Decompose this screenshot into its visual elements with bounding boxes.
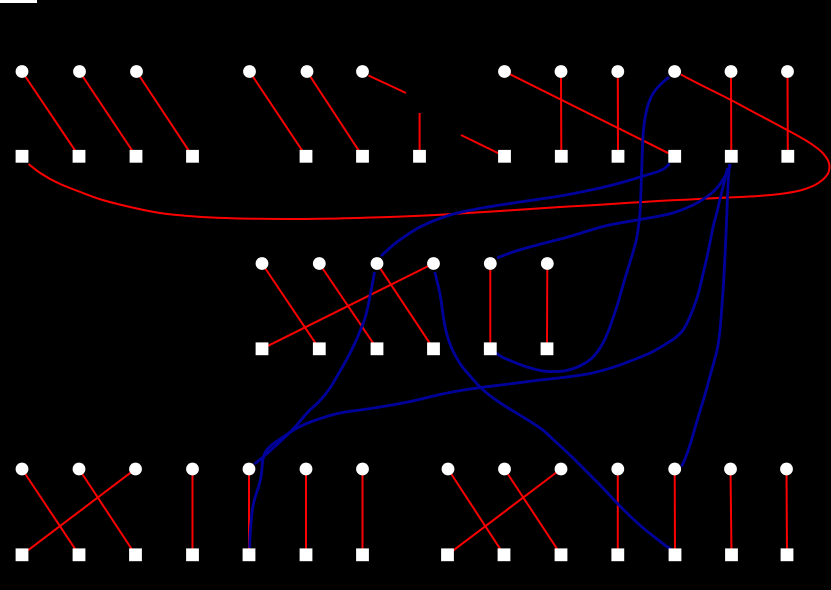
node bottom square 3 (129, 548, 142, 561)
wire red edge B4: bottom circle 4 vertical (192, 469, 194, 555)
node bottom circle 5 (243, 463, 256, 476)
wire red edge T9: top circle 11 vertical (730, 72, 732, 157)
node bottom circle 3 (129, 463, 142, 476)
blue curve C: top square 12 to bottom circle 12 (682, 164, 730, 467)
wire red edge B2: bottom circle 2 to bottom square 3 (79, 469, 136, 555)
node bottom circle 4 (186, 463, 199, 476)
node top square 4 (186, 150, 199, 163)
node bottom circle 9 (498, 463, 511, 476)
node bottom square 14 (781, 548, 794, 561)
wire red edge M4: mid circle 4 to mid square 1 (262, 264, 434, 349)
node mid square 6 (541, 342, 554, 355)
node top square 11 (668, 150, 681, 163)
wire red edge B11: bottom circle 11 vertical (617, 469, 619, 555)
wire red edge B8: bottom circle 8 to bottom square 9 (448, 469, 504, 555)
node top circle 8 (555, 65, 568, 78)
wire red edge M6: mid circle 6 vertical (546, 264, 548, 349)
node mid square 1 (256, 342, 269, 355)
blue curve F: mid circle 4 to bottom square 12 (435, 272, 671, 549)
blue curve B: mid circle 5 to top square 12 (497, 164, 731, 258)
wire red edge B7: bottom circle 7 vertical (362, 469, 364, 555)
node top circle 2 (73, 65, 86, 78)
node mid circle 5 (484, 257, 497, 270)
wire red partial segment Sc into top square 8 (461, 135, 502, 155)
node top circle 10 (668, 65, 681, 78)
wire red edge B5: bottom circle 5 vertical (248, 469, 250, 555)
wire red edge T8: top circle 9 vertical (617, 72, 619, 157)
wire red loop edge: top circle 10 around right side to top square 1 (29, 75, 830, 220)
node top circle 11 (725, 65, 738, 78)
wire red edge T1: top circle 1 to top square 2 (22, 72, 79, 157)
node top square 2 (73, 150, 86, 163)
node top square 9 (555, 150, 568, 163)
node mid square 2 (313, 342, 326, 355)
node top circle 4 (243, 65, 256, 78)
node bottom square 11 (611, 548, 624, 561)
node top circle 9 (611, 65, 624, 78)
node mid square 5 (484, 342, 497, 355)
node mid square 4 (427, 342, 440, 355)
node top circle 5 (301, 65, 314, 78)
node mid square 3 (371, 342, 384, 355)
blue curve E: mid circle 3 to bottom circle 5 (255, 272, 375, 464)
wire red edge B10: bottom circle 10 to bottom square 8 (448, 469, 562, 555)
node bottom circle 7 (356, 463, 369, 476)
node top circle 3 (130, 65, 143, 78)
node top circle 7 (498, 65, 511, 78)
wire red edge M3: mid circle 3 to mid square 4 (377, 264, 434, 349)
blue curve H: top circle 10 to mid square 5 (496, 77, 669, 372)
node bottom square 7 (356, 548, 369, 561)
node top square 12 (725, 150, 738, 163)
top-left white rectangle fragment (0, 0, 37, 3)
node bottom circle 6 (300, 463, 313, 476)
node top square 6 (356, 150, 369, 163)
wire red edge B3: bottom circle 3 to bottom square 1 (22, 469, 136, 555)
wire red edge M1: mid circle 1 to mid square 2 (262, 264, 319, 349)
node top square 13 (781, 150, 794, 163)
node top square 3 (130, 150, 143, 163)
node bottom square 10 (555, 548, 568, 561)
node bottom square 2 (73, 548, 86, 561)
wire red edge T10: top circle 12 vertical (787, 72, 789, 157)
wire red edge T3: top circle 3 to top square 4 (137, 72, 193, 157)
wire red edge M5: mid circle 5 vertical (489, 264, 491, 349)
node bottom square 8 (441, 548, 454, 561)
node top square 7 (413, 150, 426, 163)
blue curve D: top square 12 to bottom square 5 (250, 168, 728, 548)
node bottom circle 12 (668, 463, 681, 476)
node top circle 6 (356, 65, 369, 78)
node bottom circle 11 (611, 463, 624, 476)
wire red edge T6: top circle 7 long diagonal to top square 11 (505, 72, 675, 157)
node mid circle 2 (313, 257, 326, 270)
node bottom square 6 (300, 548, 313, 561)
node bottom square 4 (186, 548, 199, 561)
wire red edge T5: top circle 5 to top square 6 (307, 72, 363, 157)
wire red edge T4: top circle 4 to top square 5 (250, 72, 307, 157)
wire red edge B13: bottom circle 13 vertical (731, 469, 732, 555)
blue curve A: mid circle 3 to top square 11 (381, 164, 670, 257)
node bottom square 13 (725, 548, 738, 561)
node bottom square 1 (16, 548, 29, 561)
node bottom square 12 (669, 548, 682, 561)
node bottom circle 10 (555, 463, 568, 476)
wire red edge B12: bottom circle 12 vertical (674, 469, 676, 555)
wire red edge T2: top circle 2 to top square 3 (80, 72, 137, 157)
node top circle 12 (781, 65, 794, 78)
wire red edge M2: mid circle 2 to mid square 3 (319, 264, 377, 349)
wire red edge T7: top circle 8 vertical (560, 72, 562, 157)
node mid circle 3 (371, 257, 384, 270)
node top square 1 (16, 150, 29, 163)
wire red edge B1: bottom circle 1 to bottom square 2 (22, 469, 79, 555)
node mid circle 1 (256, 257, 269, 270)
node top circle 1 (16, 65, 29, 78)
wire red partial segment Sa from top circle 6 (369, 76, 407, 94)
node bottom circle 2 (73, 463, 86, 476)
node bottom circle 8 (442, 463, 455, 476)
wire red edge B6: bottom circle 6 vertical (305, 469, 307, 555)
node bottom square 5 (243, 548, 256, 561)
node bottom square 9 (498, 548, 511, 561)
wire red edge B14: bottom circle 14 vertical (786, 469, 789, 555)
node top square 10 (612, 150, 625, 163)
node mid circle 6 (541, 257, 554, 270)
node bottom circle 14 (780, 463, 793, 476)
wire red partial vertical segment Sb into top square 7 (419, 113, 421, 150)
node bottom circle 13 (724, 463, 737, 476)
node top square 5 (300, 150, 313, 163)
wire red edge B9: bottom circle 9 to bottom square 10 (505, 469, 562, 555)
node bottom circle 1 (16, 463, 29, 476)
node mid circle 4 (427, 257, 440, 270)
node top square 8 (498, 150, 511, 163)
